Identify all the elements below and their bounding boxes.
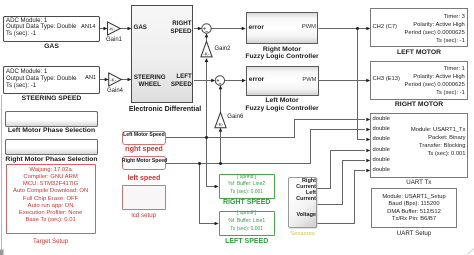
label Right Motor Phase Selection: [0, 156, 103, 163]
wire LEFT SPEED out to sum2: [194, 80, 212, 82]
port label GAS (in1): [134, 24, 147, 31]
label LEFT SPEED: [219, 238, 275, 245]
arrowhead into Gain6 input: [219, 128, 223, 132]
sample-time curl STEERING block: [6, 90, 9, 93]
label UART Setup: [371, 230, 457, 237]
label STEERING SPEED: [3, 95, 100, 102]
arrowhead into UART in1: [366, 118, 370, 122]
port label RIGHT SPEED (out1): [160, 20, 192, 35]
arrowhead Gain6 out into sum2 bottom: [219, 85, 223, 89]
gain Gain2 triangle: [201, 41, 212, 57]
sample-time curl GAS block: [6, 38, 9, 41]
wire Sensores Left Current to UART in5: [317, 161, 365, 205]
port label double 6: [373, 167, 390, 173]
block sprintf LEFT SPEED: [219, 211, 275, 237]
arrowhead into sprintf LEFT SPEED: [215, 222, 219, 226]
wire Gain6 out to sum2 bottom: [220, 89, 222, 112]
window border left gray line: [1, 95, 3, 251]
wire Sensores Right Current to UART in4: [317, 151, 365, 189]
gain Gain6 triangle: [215, 112, 226, 127]
wire branch down to sprintf RIGHT SPEED: [207, 138, 216, 187]
wire Gain1 to Electronic Differential: [120, 28, 128, 30]
arrowhead into sum1: [198, 27, 202, 31]
block Sensores: [288, 177, 317, 228]
arrowhead into Gain1: [104, 27, 108, 31]
arrowhead into sprintf RIGHT SPEED: [215, 185, 219, 189]
label RIGHT MOTOR: [370, 101, 468, 108]
port label double 1: [373, 116, 390, 122]
port label Right Current (out1): [288, 179, 316, 191]
wire PWM1 to CH2: [319, 28, 368, 30]
arrowhead into UART in2: [366, 128, 370, 132]
block Left Motor Fuzzy Logic Controller: [246, 66, 319, 96]
port label double 2: [373, 126, 390, 132]
arrowhead into UART in4: [366, 149, 370, 153]
block Right Motor Phase Selection: [5, 139, 97, 155]
block sprintf RIGHT SPEED: [219, 174, 275, 199]
label Right Motor / Fuzzy Logic Controller: [243, 46, 321, 60]
wire sum1 to FLC1 error: [211, 28, 243, 30]
arrowhead into ED GAS: [128, 27, 132, 31]
block ADC GAS: [3, 16, 100, 42]
port label double 4: [373, 147, 390, 153]
port label PWM (FLC2): [300, 77, 317, 83]
port label AN1: [85, 75, 96, 81]
label LEFT MOTOR: [370, 49, 468, 56]
port label double 3: [373, 136, 390, 142]
block Left Motor Speed: [122, 131, 166, 145]
junction node on PWM1 wire: [356, 27, 359, 30]
wire Left Motor Speed to UART in1: [166, 120, 365, 138]
wire sum2 to FLC2 error: [225, 80, 244, 82]
label Left Motor / Fuzzy Logic Controller: [243, 97, 321, 112]
port label PWM (FLC1): [300, 24, 316, 30]
port label AN14: [81, 24, 96, 30]
label Left Motor Phase Selection: [0, 127, 103, 134]
wire PWM1 branch down to UART in3: [358, 29, 365, 140]
block Left Motor Phase Selection: [5, 111, 97, 127]
wire Right Motor Speed to UART in2: [166, 130, 365, 164]
label GAS: [3, 43, 100, 50]
block PWM CH3 (RIGHT MOTOR): [370, 61, 468, 100]
arrowhead into FLC1 error: [242, 27, 246, 31]
wire RIGHT SPEED out to sum1: [194, 28, 199, 30]
wire Sensores Voltage to UART in6: [317, 171, 365, 224]
arrowhead into UART in3: [366, 138, 370, 142]
arrowhead into UART in6: [366, 169, 370, 173]
block Target Setup: [6, 164, 96, 234]
port label Voltage (out3): [288, 212, 316, 218]
arrowhead into Gain2 input: [205, 58, 209, 62]
label right speed: [122, 146, 166, 153]
block lcd setup: [122, 185, 166, 210]
port label Left Current (out2): [288, 191, 316, 203]
wire Gain6 in from RMS junction: [220, 131, 222, 164]
block PWM CH2 (LEFT MOTOR): [370, 8, 468, 47]
gain Gain4 triangle: [109, 73, 122, 86]
arrowhead into UART in5: [366, 159, 370, 163]
window corner mark bottom-right: [468, 249, 474, 255]
svg-text:-K-: -K-: [110, 78, 117, 84]
sample-time curl Target Setup block: [8, 230, 11, 233]
block ADC STEERING SPEED: [3, 66, 100, 95]
block UART Tx: [370, 113, 468, 178]
svg-text:-K-: -K-: [217, 122, 224, 128]
junction node RMS to sprintf: [198, 162, 201, 165]
gain Gain1 triangle: [108, 22, 121, 35]
label Sensores: [288, 231, 317, 237]
wire Gain2 in from LMS junction: [206, 62, 208, 138]
label Gain6: [227, 114, 243, 120]
port label LEFT SPEED (out2): [160, 73, 192, 89]
wire branch down to sprintf LEFT SPEED: [200, 164, 216, 224]
port label error (FLC1): [249, 24, 264, 31]
arrowhead into CH2: [366, 27, 370, 31]
wire PWM2 to CH3: [319, 80, 367, 82]
arrowhead into Gain4: [105, 78, 109, 82]
arrowhead into FLC2 error: [242, 79, 246, 83]
junction node on Left Motor Speed wire: [205, 136, 208, 139]
port label double 5: [373, 157, 390, 163]
wire ADC STEERING to Gain4: [100, 79, 106, 81]
block Electronic Differential: [131, 5, 193, 103]
label RIGHT SPEED: [219, 199, 275, 206]
block Right Motor Fuzzy Logic Controller: [246, 12, 319, 45]
sum junction sum1: [202, 24, 211, 33]
arrowhead into sum2: [211, 79, 215, 83]
svg-text:-K-: -K-: [109, 27, 116, 33]
arrowhead into CH3: [366, 79, 370, 83]
svg-text:-K-: -K-: [203, 51, 210, 57]
sum junction sum2: [215, 76, 224, 85]
junction node RMS to Gain6: [219, 162, 222, 165]
label Gain1: [104, 37, 124, 43]
label Gain4: [105, 88, 125, 94]
label left speed: [122, 175, 166, 182]
label lcd setup: [122, 212, 166, 219]
block Right Motor Speed: [122, 156, 166, 170]
port label error (FLC2): [249, 76, 264, 83]
port label CH3 (E13): [373, 76, 400, 82]
label UART Tx: [370, 179, 468, 186]
arrowhead into ED STEERING WHEEL: [128, 78, 132, 82]
label Electronic Differential: [124, 106, 206, 113]
wire Gain2 out to sum1 bottom: [206, 37, 208, 41]
label Gain2: [215, 46, 231, 52]
port label CH2 (C7): [373, 24, 397, 30]
arrowhead Gain2 out into sum1 bottom: [205, 33, 209, 37]
window corner mark bottom-left: [0, 250, 4, 255]
wire Gain4 to Electronic Differential: [121, 79, 128, 81]
port label STEERING WHEEL (in2): [132, 74, 167, 90]
label Target Setup: [6, 238, 96, 245]
block UART Setup: [371, 188, 457, 227]
wire ADC GAS to Gain1: [100, 28, 105, 30]
